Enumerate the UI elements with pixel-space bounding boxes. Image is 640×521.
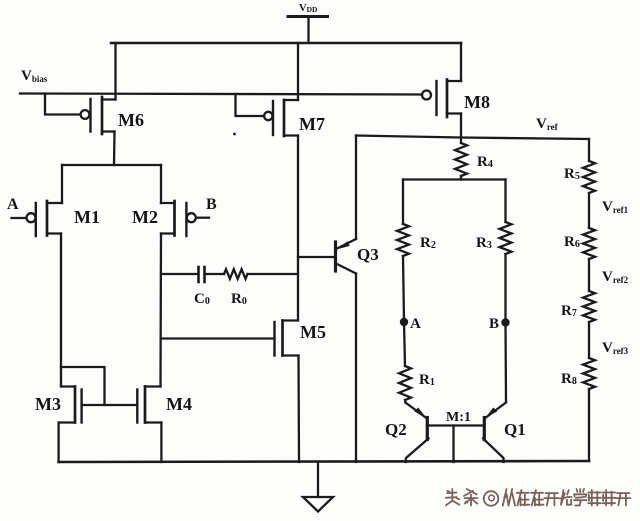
- transistor M7: [264, 100, 298, 136]
- wire Vref1 segment: [588, 193, 590, 228]
- resistor R7: [583, 291, 595, 322]
- wire M5 gate from first stage output: [161, 337, 275, 339]
- resistor R8: [583, 358, 595, 389]
- wire M8 drain to Vref node: [460, 114, 462, 138]
- wire M3 source to rail: [57, 423, 59, 463]
- wire R8 to ground rail: [588, 389, 590, 461]
- label Vref3: [602, 340, 629, 356]
- node B junction dot: [501, 318, 509, 326]
- transistor M6: [81, 97, 116, 134]
- label C0: [194, 291, 210, 307]
- wire base tie to ground rail: [452, 426, 454, 463]
- svg-text:M1: M1: [74, 207, 100, 227]
- svg-text:M:1: M:1: [446, 410, 471, 425]
- wire M7 source to rail: [297, 43, 299, 100]
- label node A: [410, 316, 421, 332]
- label VDD: [299, 3, 318, 14]
- label M7: [299, 114, 325, 134]
- svg-text:M2: M2: [132, 207, 158, 227]
- transistor Q1: [483, 403, 506, 463]
- wire R3 to node B: [504, 254, 506, 323]
- label node B: [489, 316, 499, 332]
- label R8: [561, 371, 577, 387]
- wire M8 source to rail: [460, 43, 462, 81]
- ground symbol: [303, 462, 333, 512]
- wire ground rail: [59, 461, 589, 462]
- label R0: [231, 291, 247, 307]
- power VDD symbol: [288, 17, 328, 44]
- transistor M2: [161, 201, 196, 236]
- wire M3 diode connection: [61, 367, 105, 405]
- wire Q3 emitter up to Vref line: [355, 136, 357, 240]
- wire to compensation network: [161, 273, 198, 275]
- wire node B to Q1 emitter: [504, 323, 507, 403]
- label M2: [132, 207, 158, 227]
- svg-text:M3: M3: [35, 394, 61, 414]
- svg-text:B: B: [206, 196, 217, 213]
- transistor M5: [275, 321, 299, 356]
- label M5: [300, 322, 326, 342]
- capacitor C0: [199, 267, 205, 282]
- label R4: [477, 154, 493, 170]
- label R7: [561, 303, 577, 319]
- label Vref2: [602, 269, 629, 285]
- wire M7 gate drop: [236, 94, 265, 116]
- wire M5 source to ground rail: [297, 356, 300, 463]
- label Q1: [504, 420, 526, 439]
- wire Vref2 segment: [588, 259, 590, 291]
- resistor R0: [224, 269, 248, 279]
- label Vref: [536, 116, 559, 132]
- resistor R3: [500, 222, 512, 254]
- svg-text:M6: M6: [118, 110, 144, 130]
- label R1: [419, 372, 435, 388]
- stray ink dot (scan artifact): [233, 133, 236, 136]
- label M6: [118, 110, 144, 130]
- svg-text:M4: M4: [166, 394, 192, 414]
- label M8: [464, 92, 490, 112]
- resistor R4: [455, 138, 467, 180]
- wire Vbias rail: [20, 94, 422, 95]
- node B input lead: [196, 217, 209, 219]
- resistor R5: [583, 161, 595, 193]
- label Vref1: [602, 199, 629, 215]
- wire node A to R1: [404, 322, 405, 366]
- label R6: [564, 234, 580, 250]
- label R3: [476, 235, 492, 251]
- wire Vref node: [356, 136, 589, 140]
- wire Q3 base lead: [298, 256, 334, 258]
- label M4: [166, 394, 192, 414]
- svg-text:B: B: [489, 316, 499, 332]
- wire M3-M4 gate line: [82, 404, 138, 406]
- transistor Q2: [406, 403, 429, 463]
- label B (input): [206, 196, 217, 213]
- label Vbias: [21, 68, 48, 84]
- wire R1 to Q2 emitter: [404, 400, 407, 403]
- label M1: [74, 207, 100, 227]
- wire top VDD rail: [111, 42, 461, 45]
- wire Q3 collector to ground rail: [355, 274, 357, 463]
- transistor M3: [59, 387, 82, 423]
- wire R0 to second stage node: [248, 273, 298, 275]
- label M3: [35, 394, 61, 414]
- svg-text:A: A: [410, 316, 421, 332]
- svg-text:VDD: VDD: [299, 3, 318, 14]
- watermark (decorative): [446, 489, 632, 507]
- wire M6 source to rail: [114, 43, 116, 100]
- transistor M1: [27, 201, 63, 236]
- svg-text:M8: M8: [464, 92, 490, 112]
- svg-text:A: A: [7, 196, 19, 213]
- resistor R2: [397, 224, 409, 256]
- svg-text:Q2: Q2: [385, 420, 407, 439]
- wire Vref to R5: [588, 139, 590, 161]
- wire M6 gate drop: [45, 94, 81, 115]
- label M:1: [446, 410, 471, 425]
- wire M4 source to rail: [160, 423, 162, 463]
- label Q3: [357, 245, 379, 264]
- wire diff-pair common source: [62, 165, 161, 203]
- svg-text:Q1: Q1: [504, 420, 526, 439]
- transistor M4: [137, 387, 161, 423]
- label R5: [564, 166, 580, 182]
- resistor R6: [583, 228, 595, 259]
- wire M2 drain down: [159, 234, 162, 387]
- wire M1 drain down: [60, 234, 62, 387]
- transistor Q3: [336, 239, 357, 274]
- label A (input): [7, 196, 19, 213]
- svg-text:M5: M5: [300, 322, 326, 342]
- resistor R1: [399, 366, 411, 400]
- wire R2-R3 top: [403, 180, 506, 225]
- svg-text:Q3: Q3: [357, 245, 379, 264]
- node A input lead: [12, 217, 27, 219]
- wire R2 to node A: [403, 256, 404, 322]
- node A junction dot: [400, 318, 408, 326]
- wire Q2-Q1 base tie: [429, 424, 484, 426]
- label R2: [420, 235, 436, 251]
- wire M7 drain down to M5: [297, 136, 299, 321]
- transistor M8: [422, 80, 461, 118]
- svg-text:M7: M7: [299, 114, 325, 134]
- wire C0 to R0: [205, 273, 225, 275]
- wire M6 drain to diff pair: [113, 132, 116, 166]
- label Q2: [385, 420, 407, 439]
- wire Vref3 segment: [588, 322, 590, 358]
